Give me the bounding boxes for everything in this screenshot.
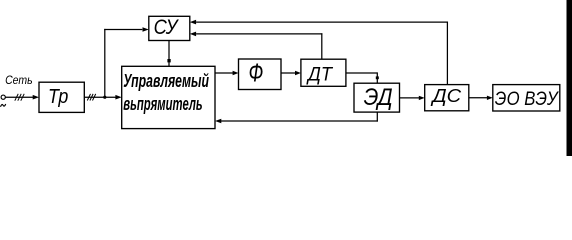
wire: ЭД to ДС [400,97,420,99]
load ЭО ВЭУ [493,85,560,111]
transformer Тр [39,82,84,112]
wire: ДС to ЭО ВЭУ [469,97,488,99]
svg-text:Ф: Ф [249,60,264,88]
svg-text:ДТ: ДТ [306,64,334,86]
svg-text:ДС: ДС [430,85,461,106]
terminal circle (mains input) [1,95,5,99]
wire: rectifier to Ф [215,72,233,74]
three-phase slashes on Тр output wire [87,94,95,101]
wire: junction riser up to СУ level [104,29,106,97]
wire: across to СУ left input [104,29,142,31]
arrow into ДТ [295,71,301,75]
junction node dot [103,96,106,99]
small arrow blob on СУ output [167,59,170,62]
arrow into ЭО ВЭУ [487,96,493,100]
arrow into rectifier right [215,119,221,124]
wire: Тр to rectifier [84,96,116,98]
svg-text:Тр: Тр [48,86,68,108]
svg-text:ЭД: ЭД [364,84,393,111]
feedback wire: ДТ top up and left to СУ (lower) [321,33,323,59]
control unit СУ [149,16,190,40]
svg-text:Управляемый: Управляемый [123,71,209,91]
controlled rectifier Управляемый вьпрямитель [122,66,215,128]
svg-text:вьпрямитель: вьпрямитель [123,94,202,114]
electric motor ЭД [354,83,400,112]
svg-text:СУ: СУ [154,16,180,39]
wire: СУ output down to rectifier [168,41,170,67]
svg-text:Сеть: Сеть [5,75,33,87]
arrow into СУ right (upper) [190,20,196,25]
arrow into Ф [233,71,239,75]
arrow into СУ left [143,27,149,32]
arrow into rectifier left [115,95,121,100]
three-phase slashes on mains wire [15,94,24,101]
current sensor ДТ [301,59,346,86]
feedback wire: ДС top up and left to СУ (upper) [446,22,448,85]
arrow into Тр [33,95,39,100]
wire: mains to Тр [5,96,33,98]
wire: ДТ right, over and down to ЭД top [346,72,377,74]
arrow into ДС [419,96,425,100]
filter Ф [239,59,282,90]
arrow into СУ right (lower) [190,32,196,37]
wire: Ф to ДТ [281,72,296,74]
feedback wire: ЭД bottom down and left to rectifier [376,112,378,122]
svg-text:ЭО ВЭУ: ЭО ВЭУ [495,88,560,110]
small junction blob above ЭД [376,76,379,79]
AC tilde symbol [1,104,6,107]
speed sensor ДС [425,85,469,111]
black margin bar at right edge [567,0,572,156]
